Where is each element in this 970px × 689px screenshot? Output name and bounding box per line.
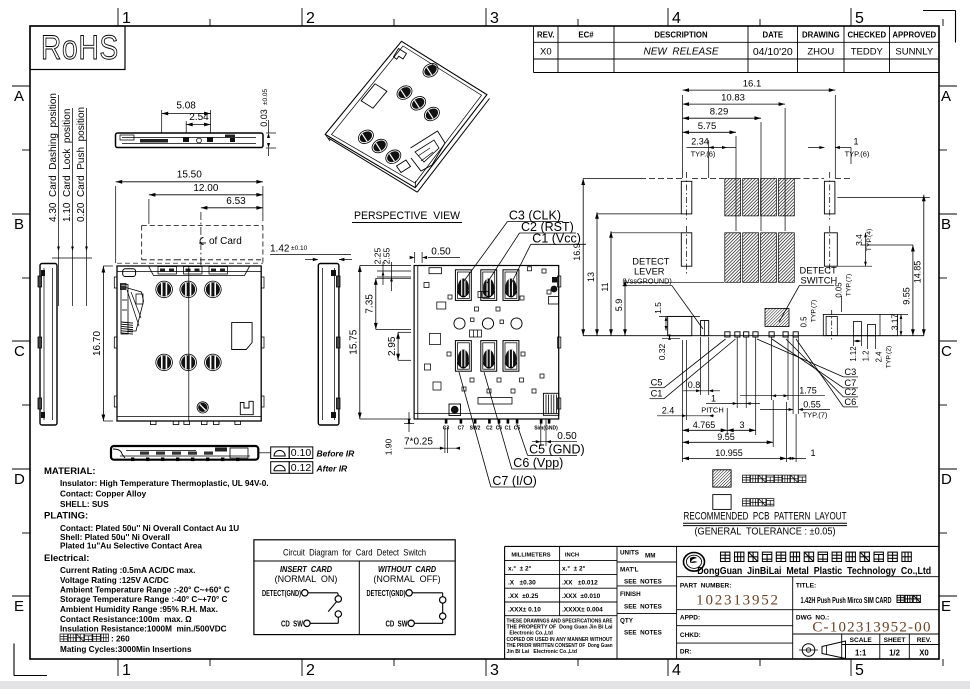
svg-text:TYP.(7): TYP.(7) [803, 410, 828, 419]
svg-text:12.00: 12.00 [193, 183, 218, 194]
svg-text:D: D [941, 471, 952, 488]
svg-text:C3: C3 [844, 367, 856, 377]
svg-text:0.32: 0.32 [657, 343, 667, 360]
label C5 GND [509, 380, 585, 456]
terminal DETECT(GND) left [262, 588, 308, 598]
dim 3.4 typ4 [838, 229, 873, 266]
svg-text:SUNNLY: SUNNLY [895, 47, 933, 58]
svg-text:TYP.(6): TYP.(6) [845, 149, 870, 158]
svg-text:After IR: After IR [316, 463, 349, 473]
title cell [796, 583, 921, 606]
svg-text:A: A [941, 88, 951, 105]
dim 0.50 top [410, 247, 460, 264]
switch contact lower right [440, 613, 446, 619]
svg-text:1:1: 1:1 [855, 649, 867, 658]
svg-text:RECOMMENDED PCB PATTERN LAY: RECOMMENDED PCB PATTERN LAYOUT [684, 511, 847, 523]
svg-text:CD SW: CD SW [386, 618, 408, 628]
svg-text:SWITCH: SWITCH [801, 276, 838, 286]
bottom right bracket [240, 401, 253, 414]
svg-text:1: 1 [122, 662, 131, 679]
card outline dashed [117, 212, 263, 266]
svg-text:B: B [941, 216, 951, 233]
side view bottom [111, 446, 271, 461]
legend keepout [713, 470, 806, 487]
svg-text:SEE NOTES: SEE NOTES [624, 604, 662, 611]
svg-text:1: 1 [711, 394, 716, 404]
svg-text:SHEET: SHEET [884, 637, 906, 644]
dim 2.4 typ2 [875, 346, 893, 369]
svg-text:INSERT CARD: INSERT CARD [280, 565, 332, 574]
svg-text:C-102313952-00: C-102313952-00 [812, 620, 931, 636]
detect lever label [622, 257, 703, 330]
svg-text:C2: C2 [486, 426, 493, 432]
svg-text:PITCH: PITCH [701, 406, 724, 415]
svg-text:Electronic Co.,Ltd: Electronic Co.,Ltd [507, 631, 553, 637]
svg-text:CHKD:: CHKD: [680, 632, 701, 639]
sim cutout [232, 323, 252, 350]
svg-text:DRAWING: DRAWING [802, 31, 840, 40]
svg-text:5: 5 [855, 662, 864, 679]
svg-text:1.10 Card Lock position: 1.10 Card Lock position [62, 109, 73, 222]
svg-text:C5 (GND): C5 (GND) [529, 442, 585, 456]
svg-text:SHELL: SUS: SHELL: SUS [60, 500, 109, 509]
pcb hatched pads row1 [725, 179, 795, 216]
svg-text:.XX ±0.25: .XX ±0.25 [508, 593, 539, 600]
dim 13 [586, 212, 681, 336]
bottom view contacts row1 [455, 270, 519, 301]
svg-text:INCH: INCH [565, 553, 579, 559]
dim 0.05 typ7 [835, 274, 853, 312]
svg-text:C1: C1 [651, 389, 663, 399]
svg-text:THE PROPERTY OF Dong Guan Jin: THE PROPERTY OF Dong Guan Jin Bi Lai [507, 625, 614, 631]
svg-text:2.54: 2.54 [189, 112, 209, 123]
dim 0.5 typ7 [800, 300, 821, 330]
svg-text:0.03: 0.03 [259, 109, 269, 127]
svg-text:.XX ±0.012: .XX ±0.012 [562, 580, 598, 587]
svg-text:C: C [941, 343, 952, 360]
svg-text:C1: C1 [505, 426, 512, 432]
svg-text:1.90: 1.90 [384, 438, 394, 455]
dim 9.55 right [861, 245, 914, 336]
svg-text:B: B [14, 216, 24, 233]
svg-text:9.55: 9.55 [902, 287, 912, 305]
dim 1.42 [270, 244, 352, 262]
svg-text:.XXXX± 0.004: .XXXX± 0.004 [562, 607, 603, 614]
top view center line [188, 266, 190, 421]
svg-text:1.75: 1.75 [799, 385, 817, 395]
terminal CD SW left [281, 618, 310, 628]
part number cell [677, 577, 939, 659]
svg-text:PERSPECTIVE VIEW: PERSPECTIVE VIEW [354, 210, 460, 222]
perspective notch window [361, 84, 387, 108]
svg-text:6.53: 6.53 [226, 196, 246, 207]
pcb dashed card line [640, 178, 852, 180]
svg-text:16.9: 16.9 [572, 243, 582, 261]
terminal CD SW right [386, 618, 415, 628]
wire detect right [412, 593, 442, 597]
svg-text:(NORMAL ON): (NORMAL ON) [275, 574, 338, 584]
dim 2.95 [387, 332, 411, 360]
svg-text:TITLE:: TITLE: [796, 583, 816, 590]
top view side tabs [114, 277, 264, 407]
dim 1.90 [384, 412, 415, 455]
svg-text:Insulation Resistance:1000M m: Insulation Resistance:1000M min./500VDC [60, 625, 227, 634]
svg-text:4.30 Card Dashing position: 4.30 Card Dashing position [48, 93, 59, 222]
svg-text:1.42H Push Push Mirco SIM CARD: 1.42H Push Push Mirco SIM CARD [801, 596, 892, 605]
dim 1.12 [849, 336, 861, 362]
svg-text:Contact: Plated 50u'' Ni Overa: Contact: Plated 50u'' Ni Overall Contact… [60, 524, 239, 533]
svg-text:3.4: 3.4 [854, 234, 864, 246]
svg-text:2: 2 [306, 662, 315, 679]
svg-text:10.955: 10.955 [715, 448, 743, 458]
svg-text:TYP.(4): TYP.(4) [866, 229, 873, 252]
bottom view scatter details [447, 267, 559, 416]
projection symbol [799, 641, 846, 659]
switch contact upper right [440, 597, 446, 603]
svg-text:5.08: 5.08 [176, 101, 196, 112]
svg-text:x.° ± 2°: x.° ± 2° [508, 565, 532, 573]
svg-text:5.75: 5.75 [698, 121, 717, 132]
svg-text:C6: C6 [844, 397, 856, 407]
svg-text:TYP.(7): TYP.(7) [846, 274, 853, 297]
svg-text:Electrical:: Electrical: [44, 553, 89, 564]
dim 0.55 typ7 [760, 337, 830, 419]
svg-text:DATE: DATE [762, 31, 783, 40]
switch contact upper left [335, 593, 341, 602]
svg-text:3: 3 [739, 420, 744, 430]
svg-text:Current Rating :0.5mA AC/DC ma: Current Rating :0.5mA AC/DC max. [60, 566, 195, 575]
pad label C5 [650, 339, 726, 388]
bottom view bottom pins [443, 419, 558, 432]
svg-text:E: E [14, 598, 24, 615]
flatness callout after IR [271, 462, 348, 474]
svg-text:1.2: 1.2 [862, 351, 871, 362]
svg-text:0.55: 0.55 [803, 399, 821, 409]
dim 2.54 [186, 112, 210, 133]
svg-text:APPROVED: APPROVED [892, 31, 936, 40]
svg-text:16.1: 16.1 [743, 79, 762, 90]
svg-text:Jin Bi Lai Electronic Co.,Lt: Jin Bi Lai Electronic Co.,Ltd [507, 649, 577, 655]
bottom view contacts row2 [455, 341, 519, 372]
dim 3 bottom [727, 337, 756, 435]
svg-text:C5: C5 [651, 378, 663, 388]
svg-text:2.95: 2.95 [387, 336, 398, 356]
svg-text:C3: C3 [443, 426, 450, 432]
svg-text:SCALE: SCALE [850, 637, 873, 644]
dim 3.17 [890, 313, 909, 335]
svg-text:: 260: : 260 [111, 635, 130, 644]
card position captions [48, 93, 92, 306]
svg-text:(GENERAL TOLERANCE : ±0.05): (GENERAL TOLERANCE : ±0.05) [695, 527, 836, 538]
tolerance table text [508, 553, 603, 614]
svg-text:16.70: 16.70 [92, 331, 103, 356]
perspective view body [325, 41, 489, 192]
title block frame [505, 546, 939, 659]
dim 15.75 [349, 266, 412, 420]
svg-text:DongGuan JinBiLai Metal Pla: DongGuan JinBiLai Metal Plastic Technolo… [697, 566, 931, 577]
svg-text:0.50: 0.50 [557, 431, 577, 442]
switch arm left (closed) [328, 602, 336, 612]
svg-text:±0.10: ±0.10 [291, 245, 308, 252]
switch contact lower left [335, 611, 341, 617]
svg-text:3: 3 [490, 662, 499, 679]
svg-text:E: E [941, 598, 951, 615]
svg-text:Circuit Diagram for Card D: Circuit Diagram for Card Detect Switch [283, 548, 426, 558]
centerline of card label [199, 236, 242, 247]
dims 2.25 2.55 [373, 247, 412, 291]
svg-text:2: 2 [306, 10, 315, 27]
dim 7.35 [365, 278, 412, 329]
dim 5.08 [162, 101, 211, 134]
svg-text:1.42: 1.42 [270, 244, 290, 255]
svg-text:C7: C7 [458, 426, 465, 432]
dim 2.4 bottom [657, 270, 714, 420]
svg-text:WITHOUT CARD: WITHOUT CARD [378, 565, 436, 574]
revision table [534, 26, 940, 73]
material notes [44, 466, 269, 634]
dim 0.32 [657, 335, 680, 361]
svg-text:THE PRIOR WRITTEN CONSENT OF: THE PRIOR WRITTEN CONSENT OF Dong Guan [507, 643, 613, 649]
pcb right pad block [823, 310, 897, 340]
svg-text:RoHS: RoHS [41, 29, 119, 67]
property note [507, 619, 614, 656]
svg-text:7.35: 7.35 [365, 294, 376, 314]
bottom view right tabs [558, 276, 561, 409]
svg-text:C7 (I/O): C7 (I/O) [492, 474, 536, 488]
svg-text:5: 5 [855, 10, 864, 27]
svg-text:C2: C2 [844, 387, 856, 397]
svg-text:DR:: DR: [680, 649, 692, 656]
svg-text:REV.: REV. [917, 637, 932, 644]
svg-text:MM: MM [645, 553, 656, 560]
svg-text:04/10'20: 04/10'20 [753, 46, 793, 58]
svg-text:C6: C6 [496, 426, 503, 432]
svg-text:1.12: 1.12 [849, 346, 858, 361]
pad label C2 right [786, 339, 858, 397]
svg-text:2.55: 2.55 [382, 247, 392, 264]
dim 16.1 [683, 79, 836, 178]
svg-text:x.° ± 2°: x.° ± 2° [562, 565, 586, 573]
top view bottom tabs [117, 417, 261, 425]
svg-text:9.55: 9.55 [717, 432, 735, 442]
side view left [38, 264, 57, 426]
svg-text:0.12: 0.12 [291, 462, 312, 474]
svg-text:1: 1 [122, 10, 131, 27]
svg-text:TYP.(6): TYP.(6) [691, 149, 716, 158]
pcb hatched pads row2 [725, 233, 795, 282]
dim 1 bottom [787, 414, 816, 462]
wire detect left [308, 592, 338, 594]
svg-text:SEE NOTES: SEE NOTES [624, 630, 662, 637]
detect lever pad [668, 316, 709, 335]
svg-text:PART NUMBER:: PART NUMBER: [680, 583, 732, 590]
svg-text:REV.: REV. [537, 31, 554, 40]
flatness callout before IR [271, 447, 355, 459]
card latch lever [121, 284, 144, 335]
dim 0.50 bottom [532, 419, 577, 446]
svg-text:0.50: 0.50 [431, 247, 451, 258]
svg-text:1/2: 1/2 [889, 649, 901, 658]
dim 9.55 bottom [683, 400, 774, 447]
dim 14.85 [837, 195, 930, 336]
svg-text:DETECT(GND): DETECT(GND) [262, 588, 301, 598]
svg-text:DETECT: DETECT [632, 257, 670, 267]
svg-text:APPD:: APPD: [680, 615, 700, 622]
side view top [116, 133, 264, 148]
dim 5.9 [614, 280, 724, 336]
svg-text:2.4: 2.4 [875, 351, 884, 363]
circuit diagram for card detect switch [254, 540, 455, 635]
detect switch label [779, 266, 837, 323]
svg-text:1.5: 1.5 [653, 302, 663, 314]
dim 4.765 [683, 340, 728, 462]
svg-text:C: C [14, 343, 25, 360]
svg-text:0.20 Card Push position: 0.20 Card Push position [76, 107, 87, 222]
svg-text:SEE NOTES: SEE NOTES [624, 579, 662, 586]
svg-text:COPIED OR USED IN ANY MANNER W: COPIED OR USED IN ANY MANNER WITHOUT [507, 637, 614, 643]
pad label C1 [650, 339, 736, 399]
svg-text:8.29: 8.29 [710, 107, 729, 118]
svg-text:.XXX ±0.010: .XXX ±0.010 [562, 593, 601, 600]
top view body [117, 266, 261, 421]
units matl finish qty [620, 550, 662, 637]
pcb side pads row1 [681, 172, 835, 222]
dim 0.03 [259, 89, 276, 156]
dwg no cell [796, 615, 932, 636]
bottom view body [414, 266, 559, 420]
dim 1.5 [653, 302, 700, 331]
label C3 CLK [464, 209, 563, 282]
switch arm right (closed) [442, 603, 444, 613]
svg-text:0.5: 0.5 [800, 316, 809, 328]
legend solder [713, 495, 774, 510]
svg-text:EC#: EC# [578, 31, 594, 40]
dim 1.75 [740, 337, 825, 400]
RoHS logo box [30, 26, 125, 70]
svg-text:13: 13 [586, 272, 596, 282]
svg-text:PLATING:: PLATING: [44, 511, 88, 522]
detect switch pad [765, 308, 789, 326]
dim 5.75 [683, 121, 737, 231]
svg-text:0.05: 0.05 [835, 282, 844, 298]
top view contacts [156, 281, 221, 371]
svg-text:Ambient Temperature Range :-20: Ambient Temperature Range :-20° C~+60° C [60, 586, 230, 595]
svg-text:MAT'L: MAT'L [620, 567, 639, 574]
svg-text:0.10: 0.10 [291, 447, 312, 459]
dim 1.2 [862, 336, 876, 362]
pcb layout title [683, 511, 847, 538]
svg-text:CD SW: CD SW [281, 618, 303, 628]
svg-text:MILLIMETERS: MILLIMETERS [511, 553, 550, 559]
svg-text:102313952: 102313952 [696, 593, 780, 609]
dim 1 pitch [701, 337, 760, 415]
svg-text:DESCRIPTION: DESCRIPTION [654, 31, 708, 40]
svg-text:X0: X0 [919, 649, 929, 658]
pad label C3 right [757, 339, 858, 377]
svg-text:X0: X0 [540, 47, 552, 58]
svg-text:(NORMAL OFF): (NORMAL OFF) [373, 574, 440, 584]
svg-text:TYP.(2): TYP.(2) [886, 346, 893, 369]
svg-text:±0.05: ±0.05 [262, 89, 269, 106]
dim 1 typ6 [808, 136, 870, 164]
svg-text:DETECT: DETECT [800, 266, 838, 276]
dim 6.53 [201, 196, 263, 210]
bottom gray strip [0, 681, 970, 689]
svg-text:2.4: 2.4 [662, 406, 675, 416]
svg-text:ZHOU: ZHOU [807, 47, 834, 58]
perspective latch [397, 131, 446, 173]
dim 8.29 [683, 107, 762, 231]
dim 12.00 [149, 183, 263, 224]
terminal DETECT(GND) right [367, 588, 413, 598]
dim 10.83 [683, 93, 786, 231]
svg-text:TEDDY: TEDDY [851, 47, 884, 58]
svg-text:CHECKED: CHECKED [848, 31, 887, 40]
svg-text:QTY: QTY [620, 618, 634, 625]
svg-text:Storage Temperature Range :-40: Storage Temperature Range :-40° C~+70° C [60, 595, 228, 604]
bottom view top-left features [424, 268, 446, 390]
svg-text:Voltage Rating :125V AC/DC: Voltage Rating :125V AC/DC [60, 576, 169, 585]
label C1 Vcc [510, 231, 586, 286]
svg-text:11: 11 [600, 282, 610, 291]
svg-text:A: A [14, 88, 24, 105]
label C7 IO [459, 372, 537, 488]
scale sheet rev table [793, 634, 939, 659]
svg-text:1: 1 [853, 136, 858, 146]
dim 15.50 [116, 170, 263, 264]
wire cdsw left [310, 617, 338, 623]
svg-text:.XXX± 0.10: .XXX± 0.10 [508, 607, 541, 614]
perspective contacts [356, 61, 442, 167]
svg-text:C1 (Vcc): C1 (Vcc) [532, 231, 581, 245]
svg-text:UNITS: UNITS [620, 550, 639, 557]
pad label C7 right [772, 339, 858, 388]
svg-text:Contact: Copper Alloy: Contact: Copper Alloy [60, 490, 147, 499]
company logo [677, 553, 939, 577]
svg-text:3.17: 3.17 [890, 313, 900, 330]
svg-text:Insulator: High Temperature Th: Insulator: High Temperature Thermoplasti… [60, 479, 269, 488]
svg-text:D: D [14, 471, 25, 488]
svg-text:C6 (Vpp): C6 (Vpp) [513, 456, 563, 470]
svg-text:DETECT(GND): DETECT(GND) [367, 588, 406, 598]
svg-text:(VssGROUND): (VssGROUND) [622, 277, 671, 286]
svg-text:5.9: 5.9 [614, 299, 624, 312]
note cjk line [60, 634, 130, 644]
svg-text:2.34: 2.34 [691, 136, 709, 146]
perspective view title [352, 210, 462, 223]
insert card label [275, 565, 338, 584]
svg-text:MATERIAL:: MATERIAL: [44, 466, 96, 477]
pcb side pads row2 [681, 226, 837, 276]
label C2 RST [487, 220, 576, 283]
without card label [373, 565, 440, 584]
svg-text:7*0.25: 7*0.25 [404, 437, 433, 448]
pcb contact pads small [725, 332, 799, 337]
svg-text:3: 3 [490, 10, 499, 27]
svg-text:.X ±0.30: .X ±0.30 [508, 580, 536, 587]
dim 7x0.25 [404, 427, 460, 453]
side view right [318, 264, 340, 426]
svg-text:FINISH: FINISH [620, 591, 641, 598]
pcb pattern baseline [583, 335, 924, 337]
svg-text:15.50: 15.50 [177, 170, 202, 181]
svg-text:4: 4 [672, 10, 681, 27]
svg-text:4: 4 [672, 662, 681, 679]
dim 16.9 [572, 179, 681, 336]
svg-text:Contact Resistance:100m max.: Contact Resistance:100m max. Ω [60, 615, 192, 624]
svg-text:of Card: of Card [209, 236, 242, 247]
svg-text:15.75: 15.75 [349, 329, 360, 354]
